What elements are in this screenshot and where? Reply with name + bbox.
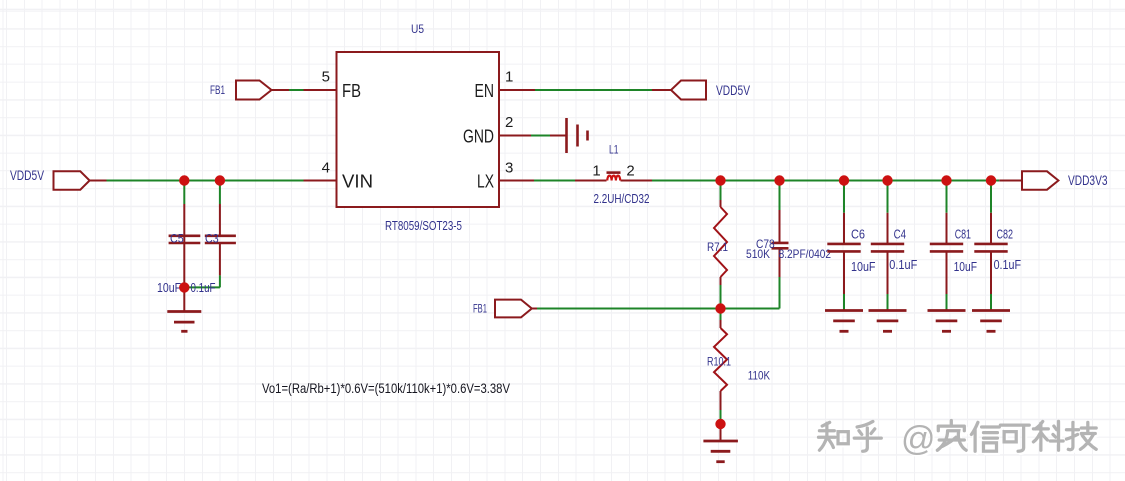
svg-text:L1: L1: [609, 143, 619, 157]
svg-text:VDD5V: VDD5V: [10, 167, 44, 183]
ground (rotated, at GND pin): [567, 118, 588, 153]
svg-text:C5: C5: [170, 232, 184, 246]
capacitor C82: [974, 181, 1021, 311]
pin 5 FB of U5: [304, 89, 337, 91]
junction dot R10.1 bottom: [715, 419, 725, 429]
port FB1 (bottom): [495, 300, 532, 318]
svg-text:1: 1: [592, 163, 600, 180]
wire stub from FB1 port: [272, 89, 290, 91]
svg-text:R7.1: R7.1: [707, 240, 728, 254]
svg-text:C81: C81: [955, 228, 971, 242]
pin 1 EN of U5: [499, 89, 535, 91]
port VDD3V3: [1022, 171, 1058, 189]
port FB1 (top left): [236, 81, 272, 100]
svg-text:10uF: 10uF: [954, 260, 978, 274]
wire stub from bottom FB1 port: [532, 308, 537, 310]
junction dot FB node: [715, 303, 725, 313]
wire R10.1 to ground: [720, 424, 722, 441]
svg-text:110K: 110K: [748, 369, 770, 383]
ground (below C5/C3): [167, 312, 201, 332]
junction dot at C82: [986, 175, 996, 185]
junction dot VIN rail at C5: [179, 175, 189, 185]
svg-text:10uF: 10uF: [851, 260, 876, 274]
wire FB1 net horizontal: [537, 308, 780, 310]
svg-text:VDD3V3: VDD3V3: [1068, 172, 1108, 188]
capacitor C6: [827, 181, 876, 311]
pin 3 LX of U5: [499, 180, 534, 182]
wire stub from VDD5V port: [90, 180, 107, 182]
svg-text:VIN: VIN: [342, 172, 373, 192]
watermark gray strokes: [819, 421, 1097, 452]
capacitor C3: [184, 181, 236, 296]
resistor R7.1: [707, 181, 770, 309]
svg-text:4: 4: [322, 160, 330, 177]
svg-text:C6: C6: [851, 228, 865, 242]
junction dot LX rail at R7.1: [715, 175, 725, 185]
svg-text:C78: C78: [756, 237, 775, 251]
pin 4 VIN of U5: [304, 180, 337, 182]
ground (below C4): [869, 311, 907, 332]
svg-text:R10.1: R10.1: [707, 355, 731, 369]
svg-text:2.2UH/CD32: 2.2UH/CD32: [594, 192, 650, 206]
capacitor C81: [930, 181, 977, 311]
svg-text:U5: U5: [411, 22, 424, 36]
junction dot at C81: [941, 175, 951, 185]
capacitor C5: [157, 181, 200, 296]
svg-text:5: 5: [322, 69, 330, 86]
junction dot C5 bottom: [179, 282, 189, 292]
svg-text:C82: C82: [997, 228, 1014, 242]
ground (below C6): [825, 311, 863, 332]
pin 2 GND of U5: [499, 135, 531, 137]
wire stub to right VDD5V port: [652, 89, 671, 91]
svg-text:0.1uF: 0.1uF: [191, 281, 216, 295]
watermark white emboss copy: [821, 423, 1099, 454]
wire FB1 to FB pin: [289, 89, 304, 91]
port VDD5V (right, at EN): [671, 81, 706, 100]
wire inductor to VDD3V3: [652, 180, 999, 182]
svg-text:3: 3: [505, 160, 513, 177]
inductor L1: [575, 143, 652, 207]
svg-text:2: 2: [626, 163, 634, 180]
capacitor C4: [871, 181, 918, 311]
wire stub to VDD3V3 port: [999, 180, 1022, 182]
svg-text:8.2PF/0402: 8.2PF/0402: [779, 247, 832, 261]
ground (below C81): [928, 311, 966, 332]
junction dot at C6: [839, 175, 849, 185]
wire EN to VDD5V port: [535, 89, 652, 91]
wire VIN rail: [107, 180, 304, 182]
ground (below R10.1): [703, 441, 738, 462]
wire LX to inductor: [534, 180, 575, 182]
svg-text:0.1uF: 0.1uF: [994, 258, 1022, 272]
capacitor C78: [756, 181, 831, 309]
port VDD5V (left input): [54, 171, 90, 189]
wire C5 bottom to ground: [183, 287, 185, 311]
svg-text:VDD5V: VDD5V: [716, 82, 750, 98]
junction dot LX rail at C78: [774, 175, 784, 185]
svg-text:EN: EN: [475, 81, 495, 101]
svg-text:C3: C3: [205, 232, 219, 246]
svg-text:FB: FB: [342, 81, 361, 101]
svg-text:LX: LX: [477, 172, 494, 192]
ground (below C82): [972, 311, 1010, 332]
svg-text:FB1: FB1: [210, 83, 225, 97]
junction dot at C4: [882, 175, 892, 185]
IC U5 body (RT8059 regulator): [337, 52, 500, 207]
wire GND pin to ground: [531, 135, 550, 137]
svg-text:C4: C4: [894, 228, 906, 242]
resistor R10.1: [707, 309, 770, 425]
svg-text:@: @: [901, 420, 936, 458]
svg-text:FB1: FB1: [473, 302, 487, 316]
svg-text:0.1uF: 0.1uF: [889, 258, 917, 272]
junction dot VIN rail at C3: [215, 175, 225, 185]
svg-text:GND: GND: [463, 127, 494, 147]
svg-text:Vo1=(Ra/Rb+1)*0.6V=(510k/110k+: Vo1=(Ra/Rb+1)*0.6V=(510k/110k+1)*0.6V=3.…: [262, 381, 510, 396]
svg-text:1: 1: [505, 69, 513, 86]
svg-text:RT8059/SOT23-5: RT8059/SOT23-5: [385, 218, 462, 233]
svg-text:2: 2: [505, 114, 513, 131]
svg-text:10uF: 10uF: [157, 281, 181, 295]
